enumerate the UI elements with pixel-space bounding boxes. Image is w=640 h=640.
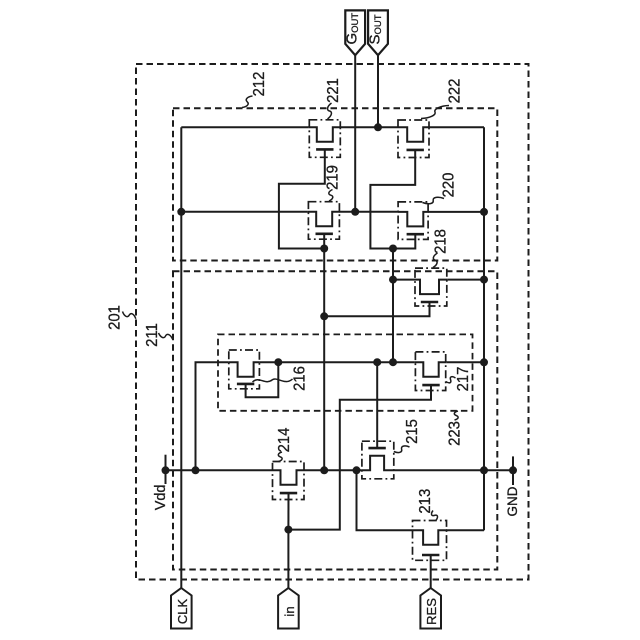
svg-text:223: 223 xyxy=(446,421,464,446)
svg-text:217: 217 xyxy=(454,367,472,392)
svg-text:211: 211 xyxy=(144,323,162,347)
svg-text:RES: RES xyxy=(424,598,439,625)
svg-text:Vdd: Vdd xyxy=(153,484,169,510)
svg-text:CLK: CLK xyxy=(175,599,190,625)
svg-text:218: 218 xyxy=(432,229,450,254)
svg-text:GND: GND xyxy=(505,486,520,516)
svg-text:201: 201 xyxy=(106,305,124,330)
svg-text:220: 220 xyxy=(440,173,458,198)
svg-text:215: 215 xyxy=(404,419,422,444)
svg-text:219: 219 xyxy=(324,165,342,190)
svg-text:213: 213 xyxy=(416,489,434,514)
svg-text:212: 212 xyxy=(251,72,269,97)
svg-text:221: 221 xyxy=(325,78,343,103)
svg-text:in: in xyxy=(282,606,297,616)
svg-text:214: 214 xyxy=(276,427,294,452)
svg-text:216: 216 xyxy=(291,366,309,391)
svg-text:222: 222 xyxy=(446,79,464,104)
